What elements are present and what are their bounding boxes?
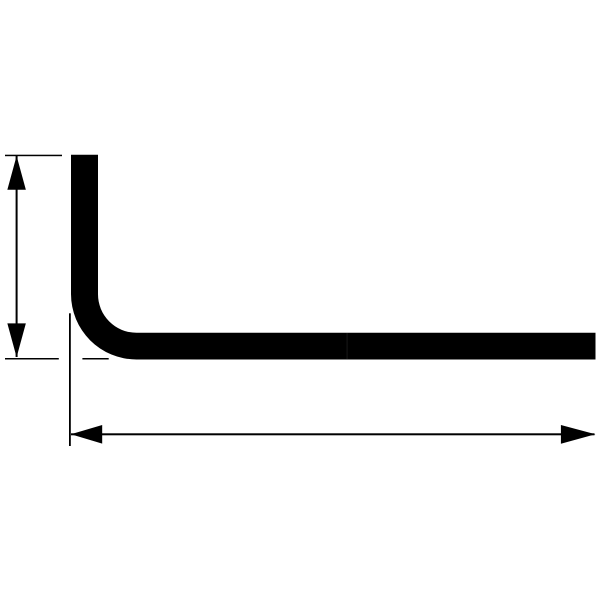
horizontal dimension line xyxy=(71,433,595,435)
horizontal dimension arrowhead right xyxy=(561,425,596,444)
vertical extension line at corner xyxy=(69,313,71,446)
vertical dimension arrowhead up xyxy=(7,156,26,190)
extension line top tick xyxy=(5,155,62,157)
extension line bottom tick right segment xyxy=(82,358,108,360)
vertical dimension arrowhead down xyxy=(7,323,26,357)
L-profile (thick angle section) xyxy=(71,155,596,360)
extension line bottom tick left segment xyxy=(5,358,59,360)
seam line in horizontal flange xyxy=(347,333,348,359)
horizontal dimension arrowhead left xyxy=(71,425,102,444)
vertical dimension line xyxy=(16,156,18,357)
